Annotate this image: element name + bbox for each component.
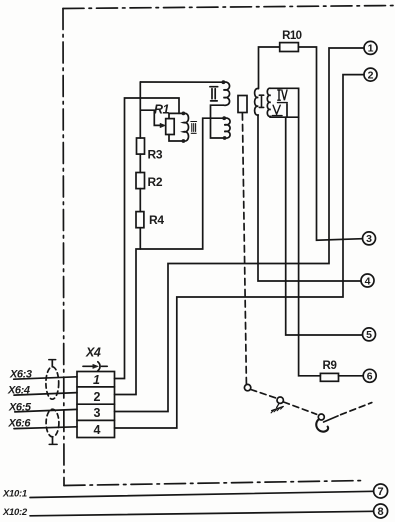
svg-text:X6:4: X6:4 xyxy=(7,385,30,397)
wire R10 right to terminal 3 xyxy=(298,47,362,240)
svg-text:R2: R2 xyxy=(148,175,163,189)
svg-text:4: 4 xyxy=(94,423,101,437)
wire top link to winding II xyxy=(140,81,223,83)
svg-text:1: 1 xyxy=(368,43,374,55)
winding I xyxy=(255,89,264,116)
winding II xyxy=(210,82,230,105)
breaker contact C with hook xyxy=(316,414,338,432)
wire R9 to terminal 6 xyxy=(339,375,364,377)
resistor R3 xyxy=(137,138,163,162)
breaker cam box xyxy=(238,96,247,113)
resistor R9 xyxy=(320,360,338,381)
wire X6:6 lead xyxy=(14,427,77,429)
terminal 7 xyxy=(374,484,388,498)
connector X4 xyxy=(77,346,115,438)
wire winding II bottom link xyxy=(211,105,225,138)
wire row4 net: X4 pin4 to terminal 2 xyxy=(115,75,365,428)
svg-text:R9: R9 xyxy=(323,360,337,372)
resistor R1 xyxy=(154,103,174,135)
winding IV / V box xyxy=(267,88,298,117)
wire winding V tap to terminal 5 xyxy=(286,117,363,335)
terminal 2 xyxy=(364,68,377,81)
resistor R2 xyxy=(136,173,163,189)
svg-text:R1: R1 xyxy=(154,103,170,117)
mechanical drive dashed link from cam box xyxy=(242,114,246,384)
shield screen upper (X6:3/X6:4 pair) xyxy=(46,360,59,400)
svg-text:3: 3 xyxy=(366,233,372,245)
svg-text:X10:2: X10:2 xyxy=(2,507,28,518)
junction dots xyxy=(182,80,227,143)
breaker lever B with support xyxy=(271,397,283,413)
svg-text:X6:5: X6:5 xyxy=(8,402,32,414)
svg-text:X6:3: X6:3 xyxy=(9,369,32,381)
svg-text:X10:1: X10:1 xyxy=(2,489,27,500)
mechanical link C outward xyxy=(341,403,372,415)
wire winding box to R9 xyxy=(299,117,321,376)
terminal 6 xyxy=(363,369,376,382)
svg-text:X4: X4 xyxy=(85,346,101,360)
wire R10 left to winding I and terminal 4 xyxy=(258,47,361,281)
svg-text:1: 1 xyxy=(93,373,100,387)
svg-text:7: 7 xyxy=(378,486,384,498)
svg-text:R10: R10 xyxy=(282,30,302,42)
wire X6:5 lead xyxy=(15,409,77,412)
mechanical link A-B xyxy=(251,390,277,399)
svg-text:2: 2 xyxy=(368,69,374,81)
mechanical link B-C xyxy=(284,402,317,414)
wire X6:4 lead xyxy=(14,393,77,396)
svg-text:3: 3 xyxy=(94,406,101,420)
wire row2 net: X4 pin2 to winding II lower terminal xyxy=(115,118,225,394)
resistor R10 xyxy=(280,30,302,52)
svg-text:2: 2 xyxy=(94,390,101,404)
wire X6:3 lead xyxy=(14,377,77,379)
shield screen lower (X6:5/X6:6 pair) xyxy=(46,409,59,444)
svg-text:R4: R4 xyxy=(149,213,164,227)
svg-text:4: 4 xyxy=(365,275,371,287)
wire row1 net: X4 pin1 to R1/III top node xyxy=(115,98,184,379)
winding III xyxy=(183,113,196,141)
wire R1 bottom to winding III bottom xyxy=(169,135,183,142)
svg-text:5: 5 xyxy=(366,329,372,341)
terminal 3 xyxy=(363,232,376,245)
terminal 1 xyxy=(364,41,377,54)
wire resistor chain R3-R2-R4 xyxy=(139,82,141,249)
winding II lower section xyxy=(224,118,230,138)
wire X10:2 lead to terminal 8 xyxy=(30,511,374,516)
wire R1 wiper arrow xyxy=(140,110,165,127)
terminal 8 xyxy=(374,504,388,518)
svg-text:6: 6 xyxy=(367,371,373,383)
frame (decorative dash-dot border) xyxy=(63,6,395,486)
wire X10:1 lead to terminal 7 xyxy=(30,491,374,497)
terminal 4 xyxy=(361,274,374,287)
resistor R4 xyxy=(136,212,164,228)
svg-text:X6:6: X6:6 xyxy=(8,418,32,430)
svg-text:8: 8 xyxy=(378,506,384,518)
breaker pivot A xyxy=(244,384,250,390)
wire row3 net: X4 pin3 to terminal 1 xyxy=(115,48,365,412)
svg-text:R3: R3 xyxy=(148,148,163,162)
terminal 5 xyxy=(363,328,376,341)
